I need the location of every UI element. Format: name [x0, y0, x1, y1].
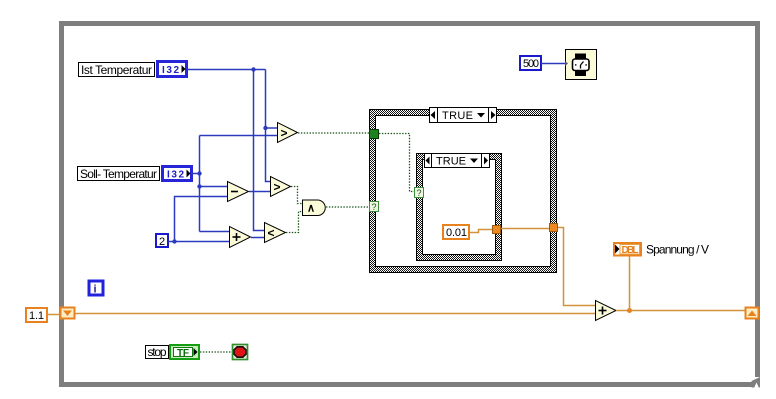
wire 0.01 to inner tunnel	[470, 230, 492, 233]
svg-text:i: i	[94, 284, 97, 296]
greater node G1	[278, 123, 298, 143]
svg-text:DBL: DBL	[622, 245, 639, 256]
wire up to DBL indicator	[629, 256, 631, 311]
wire Ist branch down right column	[266, 70, 271, 182]
boolean input tunnel on outer case	[370, 130, 379, 139]
svg-text:Soll- Temperatur: Soll- Temperatur	[80, 167, 157, 181]
indicator terminal DBL	[614, 243, 641, 256]
svg-text:0.01: 0.01	[446, 227, 467, 239]
outer case structure border	[370, 110, 557, 273]
tunnel outer case orange	[550, 224, 558, 232]
wire constant2 up to subtract bottom input	[175, 197, 228, 242]
control terminal Ist Temperatur I32	[158, 62, 187, 77]
inner case selector label TRUE	[425, 154, 490, 168]
junction dot at greater1 input	[263, 126, 267, 130]
svg-text:>: >	[273, 180, 280, 194]
wire inner tunnel to outer tunnel	[501, 228, 549, 230]
control terminal stop TF	[170, 345, 199, 359]
svg-text:1.1: 1.1	[29, 310, 44, 322]
shift register left	[61, 308, 75, 319]
boolean wire greater2 to and top	[291, 187, 302, 204]
junction dot add2 out	[627, 308, 632, 313]
svg-text:2: 2	[159, 236, 165, 248]
svg-text:I32: I32	[162, 65, 179, 76]
label Ist Temperatur	[79, 63, 155, 77]
wire Soll to subtract top input	[200, 186, 228, 188]
boolean wire tunnel to inner selector	[379, 134, 414, 192]
iteration terminal i	[89, 281, 103, 296]
wire constant2 to add bottom input	[168, 241, 229, 243]
svg-text:Ist Temperatur: Ist Temperatur	[81, 63, 152, 77]
case selector terminal inner	[415, 188, 424, 199]
svg-text:?: ?	[372, 202, 377, 212]
junction dot Soll to subtract	[197, 184, 201, 188]
svg-text:∧: ∧	[307, 203, 315, 215]
svg-text:>: >	[280, 126, 287, 140]
wire 1.1 to shift register	[47, 314, 60, 316]
wait (ms) timer function	[565, 50, 597, 80]
loop condition terminal stop sign	[233, 345, 248, 360]
tunnel inner case orange	[493, 226, 501, 234]
svg-text:I32: I32	[167, 170, 184, 181]
svg-text:<: <	[267, 226, 274, 240]
wire to greater1 top input	[266, 127, 278, 129]
wire Soll to add top input	[200, 231, 230, 233]
junction dot constant2	[172, 239, 176, 243]
shift register right	[746, 308, 759, 319]
boolean wire greater1 to tunnel	[298, 132, 369, 134]
constant 500	[520, 56, 541, 70]
label Soll- Temperatur	[78, 167, 160, 181]
outer case selector label TRUE	[430, 108, 497, 123]
wire subtract out to greater2 bottom input	[249, 191, 270, 193]
wire Soll up to greater1 bottom input	[200, 135, 278, 137]
while loop resize corner	[752, 377, 761, 388]
and gate	[303, 200, 326, 216]
boolean wire stop to loop condition	[200, 351, 232, 353]
less node	[265, 223, 286, 243]
wire 500 to wait	[541, 63, 565, 65]
wire add2 out to right shift register	[616, 310, 745, 312]
constant 2	[156, 234, 168, 248]
constant 0.01	[443, 225, 469, 239]
svg-text:Spannung / V: Spannung / V	[646, 243, 709, 257]
svg-text:TRUE: TRUE	[442, 110, 473, 122]
control terminal Soll- Temperatur I32	[163, 167, 192, 181]
case selector terminal outer	[370, 202, 379, 213]
greater node G2	[271, 177, 291, 197]
svg-text:TRUE: TRUE	[436, 156, 466, 168]
junction dot Ist branch	[251, 67, 255, 71]
add node A1	[230, 227, 251, 248]
wire Ist branch down to less-than	[254, 70, 265, 231]
wire Soll vertical column	[199, 136, 201, 232]
inner case structure border	[417, 154, 502, 261]
wire Soll output	[191, 173, 200, 175]
svg-text:stop: stop	[148, 345, 167, 359]
subtract node	[228, 182, 249, 202]
svg-text:500: 500	[523, 58, 539, 70]
wire Ist output horizontal	[187, 69, 266, 71]
wire shift register to add2 bottom input	[75, 313, 595, 315]
svg-text:TF: TF	[177, 348, 189, 359]
constant 1.1	[26, 308, 47, 322]
svg-text:?: ?	[417, 188, 422, 198]
wire add1 out to less bottom input	[251, 237, 264, 239]
label stop	[146, 345, 169, 359]
boolean wire and to case selector	[326, 206, 369, 208]
add node A2	[596, 301, 617, 321]
wire outer tunnel down to add2 top input	[558, 228, 595, 306]
boolean wire less to and bottom	[286, 212, 302, 233]
junction dot Soll	[197, 171, 201, 175]
